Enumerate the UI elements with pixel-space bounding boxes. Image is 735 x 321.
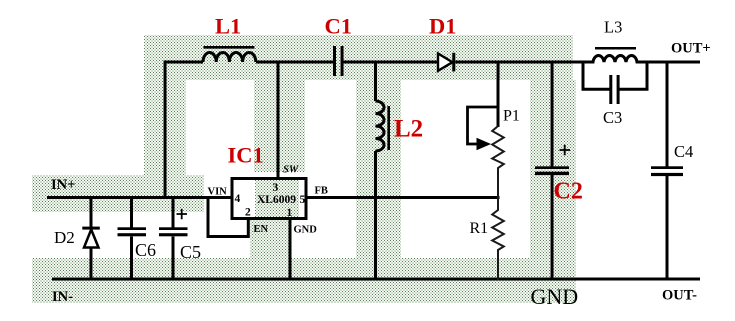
svg-text:R1: R1 (470, 220, 489, 237)
highlight region: EN-GND strip (250, 218, 290, 258)
wire top rail (165, 61, 700, 64)
svg-text:OUT-: OUT- (662, 288, 697, 304)
svg-text:IN+: IN+ (51, 177, 75, 193)
svg-text:C6: C6 (135, 240, 156, 260)
wire left vertical (164, 61, 167, 198)
svg-text:GND: GND (294, 225, 318, 236)
svg-text:L3: L3 (604, 18, 622, 37)
label plus C2 (560, 145, 571, 155)
svg-text:D2: D2 (54, 228, 75, 247)
wire GND pin (289, 219, 292, 280)
label plus C5 (177, 209, 188, 219)
inductor L3 (583, 48, 647, 62)
capacitor C2 (535, 166, 569, 175)
op-amp U1 XL6009 box (232, 179, 306, 219)
highlight region: C2-GND strip (530, 80, 576, 303)
wire EN loop (208, 196, 248, 237)
inductor L2 (376, 101, 389, 151)
svg-text:FB: FB (315, 186, 328, 197)
svg-text:C1: C1 (325, 14, 353, 39)
highlight region: IN+ band (32, 175, 204, 212)
wire FB rail (306, 196, 500, 199)
svg-text:C5: C5 (180, 242, 201, 262)
diode D2 (82, 198, 100, 281)
svg-text:C3: C3 (603, 108, 622, 127)
wire bottom rail (52, 278, 700, 281)
svg-text:OUT+: OUT+ (671, 41, 711, 57)
svg-text:P1: P1 (503, 108, 520, 125)
svg-text:3: 3 (273, 182, 279, 194)
wire SW vertical (277, 61, 280, 179)
highlight region: left strip (144, 80, 186, 175)
svg-text:4: 4 (235, 193, 241, 205)
highlight region: SW strip (254, 80, 305, 172)
highlight region: bottom band (32, 258, 576, 303)
highlight region: top band (144, 35, 573, 80)
svg-text:5: 5 (300, 194, 306, 206)
highlight region: IC interior strip (255, 180, 299, 218)
svg-text:IN-: IN- (52, 289, 73, 305)
svg-text:XL6009: XL6009 (257, 194, 296, 206)
svg-text:L1: L1 (215, 14, 241, 39)
svg-text:C4: C4 (674, 142, 693, 161)
svg-text:2: 2 (245, 207, 251, 219)
svg-text:VIN: VIN (208, 187, 228, 198)
capacitor C4 (651, 166, 683, 176)
wire D1-P1 vertical (497, 61, 500, 128)
potentiometer P1 (468, 107, 504, 198)
capacitor C3 with frame (583, 61, 647, 105)
capacitor C1 (333, 46, 344, 76)
resistor R1 (492, 198, 504, 281)
svg-text:D1: D1 (429, 14, 457, 39)
svg-text:SW: SW (283, 165, 299, 176)
svg-text:IC1: IC1 (228, 143, 264, 168)
wire C1-L2 vertical (374, 61, 377, 281)
diode D1 (438, 53, 455, 72)
svg-text:GND: GND (531, 284, 579, 309)
wire OUT vertical (666, 61, 669, 281)
svg-text:1: 1 (287, 207, 293, 219)
highlight region: L2 strip (356, 80, 401, 258)
svg-text:EN: EN (254, 224, 269, 235)
capacitor C6 (118, 196, 147, 280)
wire C2 vertical (551, 61, 554, 281)
inductor L1 (203, 47, 256, 62)
svg-text:L2: L2 (394, 116, 423, 143)
wire IN+ rail (47, 196, 232, 199)
svg-text:C2: C2 (554, 179, 583, 205)
capacitor C5 (159, 196, 188, 280)
